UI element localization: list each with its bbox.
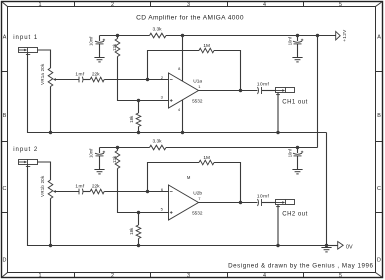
capacitor 10nf decoupling (ch2) <box>293 148 303 170</box>
svg-text:3.3k: 3.3k <box>152 139 162 145</box>
wire output shield to ground rail (ch1) <box>277 93 279 133</box>
potentiometer VR1b 20k <box>48 180 53 199</box>
capacitor 10mf rail filter (ch1) <box>95 36 105 58</box>
svg-text:1: 1 <box>39 273 42 279</box>
potentiometer wiper arrow (ch2) <box>53 190 79 193</box>
svg-text:A: A <box>377 35 381 41</box>
wire op-amp output (ch2) <box>199 202 258 204</box>
ground rail channel 1 <box>28 132 327 134</box>
junction bias node (ch1) <box>137 99 140 102</box>
junction feedback/output (ch2) <box>239 201 242 204</box>
supply rail wire (ch1) <box>100 35 336 37</box>
op-amp U2b <box>169 185 199 220</box>
svg-text:input 1: input 1 <box>13 35 38 41</box>
wire input pin to potentiometer (ch2) <box>38 162 51 180</box>
svg-text:C: C <box>377 186 381 192</box>
svg-text:10mf: 10mf <box>257 193 270 199</box>
svg-text:3: 3 <box>187 273 190 279</box>
wire feedback up (ch2) <box>148 163 200 192</box>
border column numbers 1-5 <box>39 2 343 279</box>
junction pin 4 on ground rail <box>181 131 184 134</box>
svg-text:CD Amplifier for the AMIGA 400: CD Amplifier for the AMIGA 4000 <box>136 15 244 22</box>
resistor 18k (ch2) <box>136 213 141 246</box>
junction 18k/ground rail (ch2) <box>137 244 140 247</box>
svg-text:1mf: 1mf <box>75 183 84 189</box>
junction rail/decoupling cap (ch2) <box>296 146 299 149</box>
ground symbol under 10mf (ch1) <box>94 58 104 62</box>
potentiometer wiper arrow (ch1) <box>53 78 79 81</box>
resistor 12k (ch1) <box>115 39 120 57</box>
border column ticks top/bottom <box>75 2 304 277</box>
output connector (CH1 out) <box>276 88 295 95</box>
resistor 22k (ch2) <box>90 189 104 194</box>
wire feedback up (ch1) <box>148 51 200 80</box>
wire cap to 22k (ch2) <box>83 191 90 193</box>
wire input shield to ground rail (ch2) <box>28 165 51 246</box>
junction 18k/ground rail (ch1) <box>137 131 140 134</box>
capacitor 1mf (ch2) <box>79 189 83 195</box>
wire 22k to inverting input (ch1) <box>104 79 168 81</box>
svg-text:C: C <box>3 186 7 192</box>
junction pot bottom (ch2) <box>49 244 52 247</box>
junction feedback/output (ch1) <box>239 89 242 92</box>
svg-text:22k: 22k <box>92 184 100 190</box>
wire ground rail down to main ground <box>326 133 328 246</box>
svg-text:4: 4 <box>263 2 266 8</box>
resistor 1M (ch1) <box>199 48 214 53</box>
resistor 22k (ch1) <box>90 77 104 82</box>
svg-text:D: D <box>377 258 381 264</box>
potentiometer VR1a 20k <box>48 68 53 87</box>
wire potentiometer bottom to ground rail (ch1) <box>50 87 52 133</box>
svg-text:2: 2 <box>111 273 114 279</box>
capacitor 10mf output coupling (ch1) <box>258 87 262 94</box>
+12V flag <box>336 31 341 40</box>
input connector Jch2 (input 2) <box>19 160 38 167</box>
capacitor 1mf (ch1) <box>79 77 83 83</box>
junction feedback node (ch1) <box>146 78 149 81</box>
wire feedback to output (ch1) <box>214 51 241 91</box>
wire cap to output connector (ch1) <box>262 90 276 92</box>
svg-text:18k: 18k <box>129 115 134 123</box>
wire op-amp pin 4 to ground rail <box>182 100 184 133</box>
svg-text:CH2 out: CH2 out <box>282 212 308 218</box>
svg-text:3: 3 <box>187 2 190 8</box>
capacitor 10nf decoupling (ch1) <box>293 36 303 58</box>
svg-text:10mf: 10mf <box>257 81 270 87</box>
supply rail wire (ch2) <box>100 147 318 149</box>
wire 12k to non-inverting input (ch1) <box>118 57 169 101</box>
wire input shield to ground rail (ch1) <box>28 53 51 133</box>
svg-text:5: 5 <box>339 2 342 8</box>
svg-text:2: 2 <box>111 2 114 8</box>
wire +12V feed to channel 2 rail <box>317 36 319 148</box>
svg-text:5532: 5532 <box>192 210 203 215</box>
svg-text:0V: 0V <box>346 244 353 250</box>
svg-text:5: 5 <box>339 273 342 279</box>
svg-text:5532: 5532 <box>192 98 203 103</box>
svg-text:A: A <box>3 35 7 41</box>
op-amp U1a <box>169 73 199 108</box>
0V flag <box>327 242 344 250</box>
svg-text:18k: 18k <box>129 227 134 235</box>
junction rail/12k (ch2) <box>116 146 119 149</box>
svg-text:B: B <box>377 113 381 119</box>
wire potentiometer bottom to ground rail (ch2) <box>50 199 52 246</box>
wire output shield to ground rail (ch2) <box>277 205 279 246</box>
svg-text:D: D <box>3 258 7 264</box>
svg-text:10mf: 10mf <box>88 148 93 158</box>
junction output shield/ground (ch1) <box>276 131 279 134</box>
resistor 18k (ch1) <box>136 101 141 133</box>
svg-text:22k: 22k <box>92 72 100 78</box>
wire op-amp output (ch1) <box>199 90 258 92</box>
junction pin 8 on rail <box>181 34 184 37</box>
ground rail channel 2 (to main ground) <box>28 245 327 247</box>
svg-text:1: 1 <box>39 2 42 8</box>
ground symbol main <box>321 248 331 252</box>
junction +12V feed on rail 1 <box>316 34 319 37</box>
resistor 1M (ch2) <box>199 160 214 165</box>
ground symbol under 10mf (ch2) <box>94 170 104 174</box>
svg-text:1M: 1M <box>203 43 210 49</box>
svg-text:+12V: +12V <box>342 29 347 42</box>
junction rail/12k (ch1) <box>116 34 119 37</box>
output connector (CH2 out) <box>276 200 295 207</box>
ground symbol under 10nf (ch1) <box>292 58 302 62</box>
resistor 12k (ch2) <box>115 151 120 169</box>
resistor 3.3k (ch2) <box>150 145 167 150</box>
wire 12k branch (ch1) <box>117 36 119 39</box>
junction rail/decoupling cap (ch1) <box>296 34 299 37</box>
wire 12k to non-inverting input (ch2) <box>118 169 169 213</box>
wire cap to output connector (ch2) <box>262 202 276 204</box>
svg-text:VR1b 20k: VR1b 20k <box>40 175 45 197</box>
junction output shield/ground (ch2) <box>276 244 279 247</box>
svg-text:1M: 1M <box>203 155 210 161</box>
junction main ground <box>325 244 328 247</box>
svg-text:12k: 12k <box>112 43 117 51</box>
border row ticks left/right <box>2 72 382 213</box>
input connector Jch1 (input 1) <box>19 48 38 55</box>
wire 22k to inverting input (ch2) <box>104 191 168 193</box>
wire 12k branch (ch2) <box>117 148 119 151</box>
wire feedback to output (ch2) <box>214 163 241 203</box>
svg-text:input 2: input 2 <box>13 147 38 153</box>
wire op-amp pin 8 to +12V rail <box>182 36 184 82</box>
capacitor 10mf output coupling (ch2) <box>258 199 262 206</box>
svg-text:Designed & drawn by the Genius: Designed & drawn by the Genius , May 199… <box>228 262 373 269</box>
svg-text:4: 4 <box>263 273 266 279</box>
resistor 3.3k (ch1) <box>150 33 167 38</box>
svg-text:1mf: 1mf <box>75 71 84 77</box>
svg-text:10mf: 10mf <box>88 36 93 46</box>
svg-text:3.3k: 3.3k <box>152 27 162 33</box>
svg-text:B: B <box>3 113 7 119</box>
ground symbol under 10nf (ch2) <box>292 170 302 174</box>
capacitor 10mf rail filter (ch2) <box>95 148 105 170</box>
svg-text:CH1 out: CH1 out <box>282 100 308 106</box>
svg-text:VR1a 20k: VR1a 20k <box>40 63 45 85</box>
junction feedback node (ch2) <box>146 190 149 193</box>
svg-text:10nf: 10nf <box>288 36 293 45</box>
wire input pin to potentiometer (ch1) <box>38 50 51 68</box>
junction pot bottom (ch1) <box>49 131 52 134</box>
svg-text:M: M <box>187 175 191 180</box>
svg-text:12k: 12k <box>112 155 117 163</box>
wire cap to 22k (ch1) <box>83 79 90 81</box>
svg-text:10nf: 10nf <box>288 148 293 157</box>
junction bias node (ch2) <box>137 211 140 214</box>
